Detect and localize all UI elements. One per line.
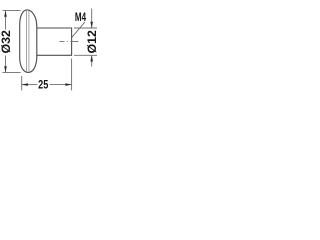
svg-text:Ø12: Ø12 (85, 30, 99, 54)
dim25 left extension line (21, 76, 23, 90)
shaft top edge (37, 27, 72, 29)
dia32 top extension line (2, 10, 20, 12)
dia12 top extension line (74, 27, 97, 29)
svg-text:25: 25 (38, 77, 48, 91)
svg-text:M4: M4 (75, 10, 86, 24)
dia12 dimension line upper segment (91, 9, 93, 28)
dia32 dimension line lower segment (5, 56, 7, 73)
dia32 up arrow (4, 11, 7, 17)
knob face inner contour line 1 (26, 11, 28, 71)
dia32 bottom extension line (2, 71, 20, 73)
dia12 dimension line lower segment (91, 56, 93, 67)
dia12 bottom extension line (74, 54, 97, 56)
dim25 right extension line (71, 59, 73, 91)
knob head outline (20, 10, 37, 73)
dia12 up arrow (90, 55, 93, 61)
dim25 left arrow (22, 83, 28, 86)
knob face inner contour line 2 (28, 11, 30, 71)
centerline dash-dot (60, 41, 79, 43)
dim25 right arrow (65, 83, 71, 86)
dia12 down arrow (90, 22, 93, 28)
shaft end face line (71, 28, 73, 56)
shaft bottom edge (37, 54, 72, 56)
dim25 dimension line right segment (50, 84, 72, 86)
svg-text:Ø32: Ø32 (0, 30, 13, 54)
dia32 dimension line upper segment (5, 11, 7, 30)
dia32 down arrow (4, 66, 7, 72)
M4 leader line (72, 22, 85, 38)
dim25 dimension line left segment (22, 84, 37, 86)
